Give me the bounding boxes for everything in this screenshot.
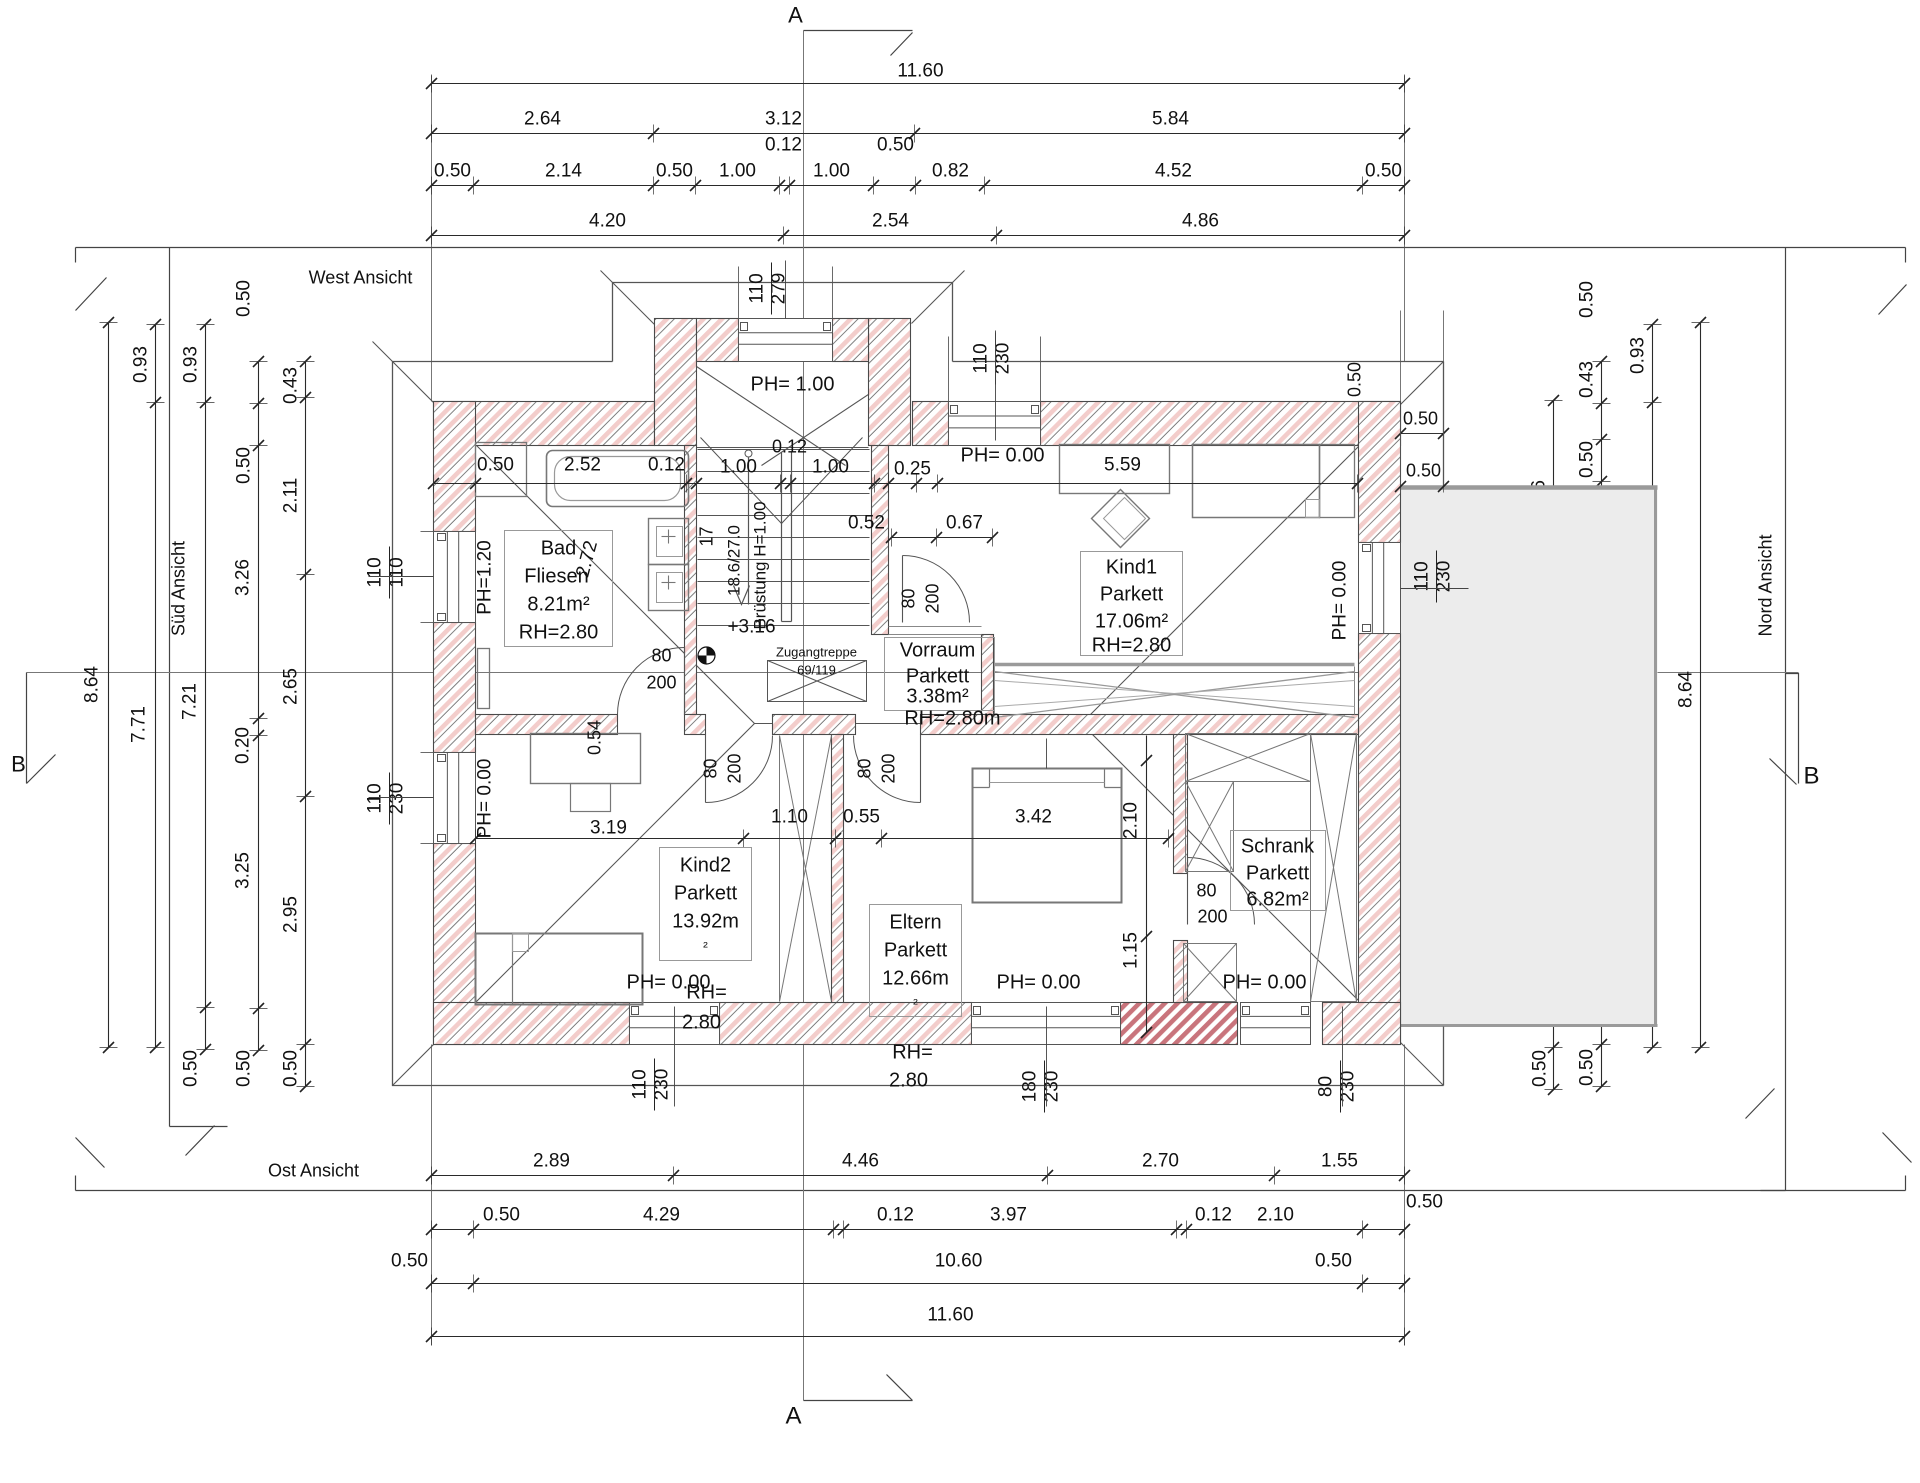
svg-text:RH=2.80: RH=2.80 bbox=[1092, 635, 1172, 657]
svg-text:2.10: 2.10 bbox=[1257, 1205, 1294, 1226]
dimension chain bottom row 2 bbox=[432, 1229, 1405, 1231]
door Eltern leaf and arc bbox=[920, 735, 922, 803]
dimension chain interior Kind1 width 5.59 bbox=[889, 483, 1358, 485]
svg-text:2.95: 2.95 bbox=[281, 896, 302, 933]
wall west lower bbox=[434, 844, 476, 1045]
svg-text:0.50: 0.50 bbox=[281, 1050, 302, 1087]
svg-text:0.52: 0.52 bbox=[848, 513, 885, 534]
svg-text:8.21m²: 8.21m² bbox=[527, 594, 590, 616]
roof hip diagonal top-right bbox=[1082, 362, 1444, 724]
svg-text:3.38m²: 3.38m² bbox=[906, 686, 969, 708]
dimension chain bottom row 11.60 bbox=[432, 1336, 1405, 1338]
vertical dimension chain left detailed bbox=[258, 362, 260, 1051]
svg-text:0.55: 0.55 bbox=[843, 807, 880, 828]
svg-text:0.50: 0.50 bbox=[181, 1050, 202, 1087]
dimension chain bottom row 1 bbox=[432, 1175, 1405, 1177]
wall mid horizontal small piece bbox=[685, 715, 706, 735]
wall east upper bbox=[1359, 402, 1401, 543]
svg-text:PH= 0.00: PH= 0.00 bbox=[1330, 561, 1351, 641]
svg-text:0.12: 0.12 bbox=[877, 1205, 914, 1226]
room label Vorraum bbox=[885, 638, 995, 711]
wall Kind2/Eltern thin bbox=[832, 735, 844, 1003]
svg-text:0.50: 0.50 bbox=[1530, 1050, 1551, 1087]
stair top parapet line bbox=[697, 447, 869, 449]
roof eave outline bbox=[393, 283, 1444, 1086]
frame corner bracket bottom-right bbox=[1883, 1133, 1912, 1191]
wall east lower bbox=[1359, 634, 1401, 1045]
svg-text:2.70: 2.70 bbox=[1142, 1151, 1179, 1172]
frame line Ost Ansicht (bottom) bbox=[76, 1190, 1906, 1192]
svg-text:4.29: 4.29 bbox=[643, 1205, 680, 1226]
svg-text:West Ansicht: West Ansicht bbox=[309, 268, 413, 288]
wall west middle bbox=[434, 623, 476, 753]
Eltern window centerline inside bbox=[1046, 739, 1048, 769]
svg-text:3.42: 3.42 bbox=[1015, 807, 1052, 828]
svg-text:A: A bbox=[788, 3, 803, 28]
dormer wall right bbox=[869, 319, 911, 446]
svg-text:180: 180 bbox=[1020, 1071, 1041, 1103]
void cross between Kind2 and Eltern bbox=[779, 736, 781, 1002]
svg-text:Parkett: Parkett bbox=[884, 940, 948, 962]
svg-text:0.50: 0.50 bbox=[1577, 281, 1598, 318]
svg-text:3.19: 3.19 bbox=[590, 818, 627, 839]
svg-text:11.60: 11.60 bbox=[897, 61, 943, 82]
svg-text:Süd Ansicht: Süd Ansicht bbox=[169, 541, 189, 636]
door Schrank leaf and arc bbox=[1187, 858, 1189, 925]
dormer hip right bbox=[912, 271, 965, 324]
svg-text:69/119: 69/119 bbox=[797, 663, 836, 678]
svg-text:0.50: 0.50 bbox=[1577, 1049, 1598, 1086]
svg-text:PH= 0.00: PH= 0.00 bbox=[997, 972, 1081, 994]
roof ridge line bbox=[755, 723, 1082, 725]
Kind1 wardrobe band crossed bbox=[995, 663, 1355, 667]
wall mid horizontal center piece bbox=[773, 715, 856, 735]
window centerline Eltern south bbox=[1046, 1007, 1048, 1107]
Vorraum/Kind1 threshold lines bbox=[889, 626, 982, 628]
vanity with two basins bbox=[649, 519, 689, 565]
dormer valley left bbox=[697, 367, 846, 466]
terrace slab bottom edge bbox=[1401, 1024, 1658, 1027]
window centerline Kind2 west bbox=[369, 797, 434, 799]
svg-text:Kind2: Kind2 bbox=[680, 855, 731, 877]
window centerline Kind1 east bbox=[1401, 588, 1469, 590]
dormer hip left bbox=[601, 271, 656, 326]
dimension chain top row 4.20/2.54/4.86 bbox=[432, 235, 1405, 237]
svg-text:110: 110 bbox=[747, 273, 768, 303]
vertical dimension chain right 8.64 bbox=[1700, 323, 1702, 1048]
crossed rect bbox=[768, 661, 867, 702]
svg-text:200: 200 bbox=[725, 753, 745, 783]
svg-text:110: 110 bbox=[630, 1069, 651, 1099]
frame line Sued Ansicht (left vertical) bbox=[169, 248, 171, 1127]
svg-text:Schrank: Schrank bbox=[1241, 836, 1315, 858]
svg-text:1.55: 1.55 bbox=[1321, 1151, 1358, 1172]
vertical dimension chain right detailed bbox=[1601, 362, 1603, 1087]
svg-text:0.12: 0.12 bbox=[765, 135, 802, 156]
room label Kind1 bbox=[1081, 552, 1183, 656]
svg-text:200: 200 bbox=[1197, 907, 1227, 927]
svg-text:PH= 0.00: PH= 0.00 bbox=[961, 445, 1045, 467]
window south Schrank 80/230 bbox=[1241, 1003, 1311, 1045]
svg-text:PH= 0.00: PH= 0.00 bbox=[1223, 972, 1307, 994]
wall south dense pier bbox=[1121, 1003, 1238, 1045]
crossed rect bbox=[1186, 782, 1234, 872]
room label Schrank bbox=[1231, 831, 1326, 911]
svg-text:1.10: 1.10 bbox=[771, 807, 808, 828]
svg-text:17: 17 bbox=[697, 526, 717, 546]
wall south west piece bbox=[434, 1003, 630, 1045]
Kind2 bed bbox=[476, 934, 643, 1005]
window centerline Kind1 top bbox=[995, 331, 997, 441]
svg-text:1.15: 1.15 bbox=[1121, 932, 1142, 969]
window jamb extension lines bbox=[421, 531, 434, 533]
svg-text:2.52: 2.52 bbox=[564, 455, 601, 476]
extension line right house edge top bbox=[1404, 76, 1406, 362]
wall stair/Vorraum bbox=[872, 446, 889, 635]
svg-text:Parkett: Parkett bbox=[1246, 863, 1310, 885]
svg-text:RH=: RH= bbox=[686, 982, 727, 1004]
svg-text:0.12: 0.12 bbox=[772, 437, 807, 457]
terrace slab top edge thick bbox=[1399, 485, 1658, 490]
door Kind2 leaf and arc bbox=[705, 735, 707, 803]
svg-text:200: 200 bbox=[879, 753, 899, 783]
eave overhang dim ticks at terrace top bbox=[1400, 421, 1402, 493]
svg-text:18.6/27.0: 18.6/27.0 bbox=[725, 525, 744, 596]
svg-text:0.50: 0.50 bbox=[877, 135, 914, 156]
extension line right house edge bottom bbox=[1404, 1045, 1406, 1346]
svg-text:3.25: 3.25 bbox=[233, 852, 254, 889]
svg-text:110: 110 bbox=[365, 557, 386, 587]
svg-text:0.50: 0.50 bbox=[477, 455, 514, 476]
window west Bad 110/110 bbox=[434, 532, 476, 623]
vertical dim Eltern bed 2.10/1.15 bbox=[1146, 736, 1148, 1033]
frame corner bracket top-left bbox=[76, 248, 107, 311]
svg-text:0.50: 0.50 bbox=[483, 1205, 520, 1226]
room label Kind2 bbox=[660, 848, 752, 961]
wall south middle piece bbox=[720, 1003, 972, 1045]
svg-text:80: 80 bbox=[651, 646, 671, 666]
dimension chain interior Vorraum 0.52/0.67 bbox=[892, 537, 993, 539]
window west Kind2 110/230 bbox=[434, 753, 476, 844]
svg-text:8.64: 8.64 bbox=[82, 666, 103, 703]
svg-text:B: B bbox=[11, 752, 26, 777]
svg-text:0.50: 0.50 bbox=[1315, 1251, 1352, 1272]
svg-text:1.00: 1.00 bbox=[719, 161, 756, 182]
door Kind1 leaf and arc bbox=[902, 556, 904, 623]
svg-text:80: 80 bbox=[1196, 881, 1216, 901]
extension line left house edge top bbox=[431, 76, 433, 402]
room label Eltern bbox=[870, 905, 962, 1017]
svg-text:0.25: 0.25 bbox=[894, 459, 931, 480]
svg-text:4.46: 4.46 bbox=[842, 1151, 879, 1172]
level marker +3.16 bbox=[698, 647, 715, 664]
svg-text:0.82: 0.82 bbox=[932, 161, 969, 182]
stair winder diagonals bbox=[701, 438, 782, 524]
stair direction arrow bbox=[745, 450, 752, 457]
section line B-B horizontal bbox=[27, 672, 1799, 674]
svg-text:Brüstung H=1.00: Brüstung H=1.00 bbox=[751, 501, 770, 629]
svg-text:A: A bbox=[785, 1403, 801, 1430]
svg-text:0.50: 0.50 bbox=[434, 161, 471, 182]
svg-text:Nord Ansicht: Nord Ansicht bbox=[1756, 534, 1776, 636]
svg-text:80: 80 bbox=[1316, 1076, 1337, 1097]
window east Kind1 110/230 bbox=[1359, 543, 1401, 634]
frame line West Ansicht (top) bbox=[76, 247, 1906, 249]
dormer wall left bbox=[655, 319, 697, 446]
svg-text:2.11: 2.11 bbox=[281, 478, 302, 514]
Kind1 bed bbox=[1193, 445, 1320, 518]
svg-text:0.67: 0.67 bbox=[946, 513, 983, 534]
vertical dimension chain right 2.26/5.45 bbox=[1553, 401, 1555, 1090]
radiator Bad bbox=[478, 649, 490, 709]
svg-text:2.64: 2.64 bbox=[524, 109, 561, 130]
svg-text:0.50: 0.50 bbox=[234, 447, 255, 484]
svg-text:0.50: 0.50 bbox=[391, 1251, 428, 1272]
svg-text:0.93: 0.93 bbox=[1628, 337, 1649, 374]
wall mid horizontal Bad piece bbox=[476, 715, 618, 735]
svg-text:13.92m: 13.92m bbox=[672, 911, 739, 933]
Kind2 desk bbox=[531, 734, 641, 784]
frame corner bracket bottom-left bbox=[76, 1138, 105, 1191]
svg-text:0.12: 0.12 bbox=[648, 455, 685, 476]
svg-text:3.97: 3.97 bbox=[990, 1205, 1027, 1226]
dimension chain top row 11.60 bbox=[432, 83, 1405, 85]
svg-text:200: 200 bbox=[646, 673, 676, 693]
wall top east long bbox=[1041, 402, 1401, 446]
svg-text:7.71: 7.71 bbox=[129, 706, 150, 743]
svg-text:RH=2.80: RH=2.80 bbox=[519, 622, 599, 644]
crossed rect bbox=[1184, 944, 1237, 1002]
svg-text:0.50: 0.50 bbox=[1403, 409, 1438, 429]
svg-text:0.50: 0.50 bbox=[1406, 461, 1441, 481]
Bad shower cabinet bbox=[476, 443, 527, 497]
wall Eltern/Schrank upper bbox=[1174, 735, 1188, 874]
svg-text:2.89: 2.89 bbox=[533, 1151, 570, 1172]
svg-text:200: 200 bbox=[923, 583, 943, 613]
svg-text:Ost Ansicht: Ost Ansicht bbox=[268, 1161, 359, 1181]
svg-text:Bad: Bad bbox=[541, 538, 577, 560]
section line A-A vertical bbox=[803, 31, 805, 1401]
window centerline Kind2 south bbox=[674, 1007, 676, 1107]
svg-text:5.59: 5.59 bbox=[1104, 455, 1141, 476]
dormer front wall right piece bbox=[833, 319, 869, 362]
svg-text:²: ² bbox=[913, 996, 918, 1012]
svg-text:11.60: 11.60 bbox=[927, 1305, 973, 1326]
svg-text:Zugangtreppe: Zugangtreppe bbox=[776, 645, 857, 660]
svg-text:2.80: 2.80 bbox=[682, 1012, 721, 1034]
svg-text:6.82m²: 6.82m² bbox=[1246, 889, 1309, 911]
svg-text:RH=: RH= bbox=[892, 1042, 933, 1064]
svg-text:0.43: 0.43 bbox=[1577, 361, 1598, 398]
window centerline Bad west bbox=[369, 576, 434, 578]
dimension chain top row detailed bbox=[432, 185, 1405, 187]
svg-text:4.20: 4.20 bbox=[589, 211, 626, 232]
svg-text:5.84: 5.84 bbox=[1152, 109, 1189, 130]
svg-text:4.52: 4.52 bbox=[1155, 161, 1192, 182]
svg-text:3.26: 3.26 bbox=[233, 559, 254, 596]
svg-text:0.50: 0.50 bbox=[234, 280, 255, 317]
svg-text:RH=2.80m: RH=2.80m bbox=[904, 708, 1000, 730]
window south Kind2 110/230 bbox=[630, 1003, 720, 1045]
crossed rect bbox=[1186, 734, 1311, 782]
svg-text:0.50: 0.50 bbox=[656, 161, 693, 182]
svg-text:PH= 1.00: PH= 1.00 bbox=[751, 374, 835, 396]
svg-text:0.50: 0.50 bbox=[1345, 362, 1365, 397]
svg-text:0.50: 0.50 bbox=[1365, 161, 1402, 182]
svg-text:1.00: 1.00 bbox=[720, 457, 757, 478]
svg-text:²: ² bbox=[703, 939, 708, 955]
dimension chain interior row Bad/stair bbox=[434, 483, 938, 485]
wall top west piece bbox=[434, 402, 655, 446]
svg-text:110: 110 bbox=[365, 783, 386, 813]
room label Bad bbox=[505, 531, 613, 647]
window top Kind1 110/230 bbox=[949, 402, 1041, 446]
svg-text:Eltern: Eltern bbox=[889, 912, 941, 934]
svg-text:80: 80 bbox=[899, 588, 919, 608]
roof hip diagonal top-left bbox=[373, 342, 755, 724]
Kind1 desk bbox=[1060, 445, 1170, 494]
svg-text:Kind1: Kind1 bbox=[1106, 557, 1157, 579]
stair parapet Bruestung bbox=[781, 453, 783, 622]
svg-text:2.80: 2.80 bbox=[889, 1070, 928, 1092]
svg-text:Fliesen: Fliesen bbox=[524, 566, 588, 588]
svg-text:0.50: 0.50 bbox=[234, 1050, 255, 1087]
terrace slab right edge bbox=[1654, 487, 1657, 1027]
crossed rect bbox=[1311, 734, 1357, 1002]
svg-text:80: 80 bbox=[855, 758, 875, 778]
svg-text:B: B bbox=[1803, 763, 1819, 790]
svg-text:0.12: 0.12 bbox=[1195, 1205, 1232, 1226]
svg-text:0.20: 0.20 bbox=[233, 727, 254, 764]
wall south east piece bbox=[1323, 1003, 1401, 1045]
dimension chain top row 2.64/3.12/5.84 bbox=[432, 133, 1405, 135]
svg-text:PH=1.20: PH=1.20 bbox=[475, 540, 496, 614]
vertical dimension chain left 0.93/7.71 bbox=[155, 325, 157, 1048]
dimension chain bottom row 0.50/10.60/0.50 bbox=[432, 1283, 1405, 1285]
svg-text:0.93: 0.93 bbox=[131, 346, 152, 383]
svg-text:110: 110 bbox=[1412, 561, 1433, 591]
Eltern double bed bbox=[973, 769, 1122, 903]
svg-text:2.54: 2.54 bbox=[872, 211, 909, 232]
frame corner bracket top-right bbox=[1879, 248, 1907, 315]
wall Vorraum/Kind1 thin bbox=[982, 635, 994, 715]
svg-text:2.10: 2.10 bbox=[1121, 802, 1142, 839]
svg-text:Parkett: Parkett bbox=[1100, 584, 1164, 606]
wall west upper bbox=[434, 402, 476, 532]
svg-text:PH= 0.00: PH= 0.00 bbox=[475, 759, 496, 839]
svg-text:80: 80 bbox=[701, 758, 721, 778]
window dormer 110/279 bbox=[739, 319, 833, 362]
svg-text:3.12: 3.12 bbox=[765, 109, 802, 130]
extension corner line top-right bbox=[1443, 311, 1445, 362]
dimension chain interior lower rooms bbox=[476, 838, 1169, 840]
stair treads bbox=[698, 450, 870, 626]
svg-text:0.50: 0.50 bbox=[1406, 1192, 1443, 1213]
svg-text:4.86: 4.86 bbox=[1182, 211, 1219, 232]
dormer valley right bbox=[762, 367, 911, 466]
roof hip diagonal bottom-right bbox=[1082, 724, 1444, 1086]
svg-text:Parkett: Parkett bbox=[674, 883, 738, 905]
wall top east pier bbox=[913, 402, 949, 446]
door Bad leaf and arc bbox=[684, 648, 686, 715]
wall Eltern/Schrank lower bbox=[1174, 941, 1188, 1003]
terrace slab under roof (grey) bbox=[1401, 487, 1658, 1027]
wall mid horizontal east piece bbox=[921, 715, 1359, 735]
svg-text:8.64: 8.64 bbox=[1676, 671, 1697, 708]
svg-text:110: 110 bbox=[971, 343, 992, 373]
svg-text:2.14: 2.14 bbox=[545, 161, 582, 182]
svg-text:Vorraum: Vorraum bbox=[900, 640, 976, 662]
svg-text:0.43: 0.43 bbox=[281, 367, 302, 404]
svg-text:2.65: 2.65 bbox=[281, 668, 302, 705]
svg-text:1.00: 1.00 bbox=[812, 457, 849, 478]
bathtub bbox=[547, 451, 689, 507]
window centerline dormer bbox=[785, 261, 787, 319]
svg-text:12.66m: 12.66m bbox=[882, 968, 949, 990]
vertical dimension chain left 8.64 bbox=[108, 323, 110, 1048]
wall Bad/stair bbox=[685, 446, 697, 715]
Kind1 chair (rotated square) bbox=[1092, 490, 1150, 548]
svg-text:0.50: 0.50 bbox=[1577, 441, 1598, 478]
svg-text:17.06m²: 17.06m² bbox=[1095, 611, 1169, 633]
svg-text:7.21: 7.21 bbox=[180, 683, 201, 720]
window centerline Schrank south bbox=[1342, 1007, 1344, 1107]
vanity faucet crosses bbox=[662, 536, 676, 538]
svg-text:0.93: 0.93 bbox=[181, 346, 202, 383]
svg-text:0.54: 0.54 bbox=[585, 720, 605, 755]
svg-text:Parkett: Parkett bbox=[906, 666, 970, 688]
svg-text:+3.16: +3.16 bbox=[727, 617, 775, 638]
extension line left house edge bottom bbox=[431, 1045, 433, 1346]
dormer front wall left piece bbox=[697, 319, 739, 362]
vertical dimension chain left 0.93/7.21/0.50 bbox=[205, 325, 207, 1050]
vertical dimension chain right 0.93/7.71 bbox=[1652, 325, 1654, 1048]
vertical dimension chain left inner bbox=[305, 362, 307, 1087]
svg-text:1.00: 1.00 bbox=[813, 161, 850, 182]
frame line Nord Ansicht (right vertical) bbox=[1785, 248, 1787, 1191]
window south Eltern 180/230 bbox=[972, 1003, 1121, 1045]
roof hip diagonal bottom-left bbox=[393, 724, 755, 1086]
svg-text:10.60: 10.60 bbox=[935, 1251, 983, 1272]
